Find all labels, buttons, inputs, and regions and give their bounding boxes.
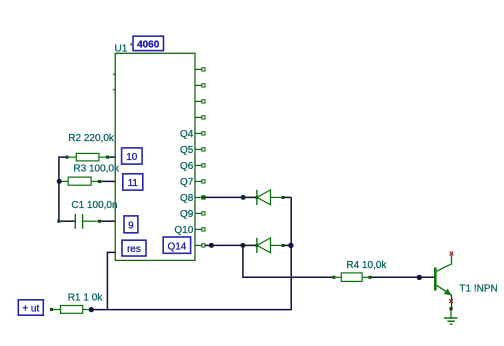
IC U1 4060 body outline bbox=[115, 53, 195, 260]
resistor R1 bbox=[50, 306, 89, 314]
label R1 1 0k bbox=[68, 293, 103, 304]
svg-text:Q5: Q5 bbox=[180, 145, 194, 156]
svg-text:U1: U1 bbox=[115, 44, 128, 55]
resistor R4 bbox=[332, 273, 371, 282]
svg-text:R3 100,0k: R3 100,0k bbox=[73, 164, 120, 175]
pin box res bbox=[122, 240, 146, 256]
label R4 10,0k bbox=[346, 260, 387, 271]
wire Q14 to diode D2 bbox=[205, 244, 256, 246]
unconnected pin marker x at T1 collector bbox=[450, 252, 454, 256]
node junction on Q8 wire bbox=[241, 195, 246, 200]
pin number box 9 bbox=[124, 216, 138, 233]
pin stub right 2 (y=85.4) bbox=[195, 84, 205, 87]
label T1 !NPN bbox=[459, 284, 497, 295]
svg-text:R1 1 0k: R1 1 0k bbox=[68, 293, 103, 304]
node junction at Q14 pin bbox=[209, 243, 214, 248]
resistor R3 bbox=[62, 177, 102, 185]
+ut connector box bbox=[18, 300, 43, 315]
node junction at R1 output bbox=[89, 307, 94, 312]
pin number box 10 bbox=[122, 148, 143, 164]
label R3 100,0k bbox=[73, 164, 120, 175]
left pin nub 2 on U1 bbox=[113, 89, 115, 91]
svg-text:11: 11 bbox=[128, 178, 139, 189]
svg-text:Q10: Q10 bbox=[174, 225, 193, 236]
pin Q14 boxed label and stub bbox=[163, 237, 205, 253]
wire R2 to pin 10 bbox=[109, 156, 115, 158]
label R2 220,0k bbox=[68, 133, 115, 144]
wire R2 left corner and rail top bbox=[59, 157, 67, 221]
svg-text:R4 10,0k: R4 10,0k bbox=[346, 260, 387, 271]
wire C1 to pin 9 bbox=[101, 220, 115, 222]
ground symbol bbox=[444, 310, 458, 324]
pin Q7 label and stub bbox=[180, 177, 205, 188]
svg-text:T1 !NPN: T1 !NPN bbox=[459, 284, 497, 295]
svg-text:res: res bbox=[127, 244, 141, 255]
svg-text:4060: 4060 bbox=[137, 40, 160, 51]
ground pin square bbox=[449, 307, 452, 310]
U1 reference designator label bbox=[115, 44, 128, 55]
tick mark between U1 and 4060 box bbox=[130, 43, 132, 45]
wire res pin down to R1 row bbox=[107, 252, 115, 309]
wire R4 to T1 base bbox=[372, 276, 434, 278]
node junction left of D2 bbox=[240, 243, 245, 248]
diode D2 bbox=[255, 238, 291, 253]
svg-text:Q4: Q4 bbox=[180, 129, 194, 140]
pin Q10 label and stub bbox=[174, 225, 205, 236]
wire R3 to pin 11 bbox=[101, 180, 115, 182]
svg-text:Q9: Q9 bbox=[180, 209, 194, 220]
pin Q8 label and stub (connected) bbox=[180, 193, 205, 204]
pin Q6 label and stub bbox=[180, 161, 205, 172]
pin number box 11 bbox=[123, 174, 143, 190]
svg-text:Q6: Q6 bbox=[180, 161, 194, 172]
svg-text:Q8: Q8 bbox=[180, 193, 194, 204]
transistor T1 bbox=[434, 255, 452, 308]
svg-text:+ ut: + ut bbox=[22, 304, 39, 315]
left pin nub 1 on U1 bbox=[113, 73, 115, 75]
svg-text:C1 100,0n: C1 100,0n bbox=[71, 200, 117, 211]
pin stub right 1 (y=69.4) bbox=[195, 68, 205, 71]
diode D1 bbox=[255, 190, 291, 205]
svg-text:R2 220,0k: R2 220,0k bbox=[68, 133, 115, 144]
node junction right of D2 bbox=[288, 243, 293, 248]
capacitor C1 bbox=[57, 214, 101, 229]
pin Q5 label and stub bbox=[180, 145, 205, 156]
label C1 100,0n bbox=[71, 200, 117, 211]
wire Q8 to diode D1 bbox=[205, 196, 256, 198]
pin stub right 3 (y=101.4) bbox=[195, 100, 205, 103]
svg-text:Q7: Q7 bbox=[180, 177, 194, 188]
svg-text:9: 9 bbox=[128, 220, 134, 231]
svg-text:Q14: Q14 bbox=[167, 241, 186, 252]
pin stub right 4 (y=117.4) bbox=[195, 116, 205, 119]
unconnected pin marker x at T1 emitter bbox=[449, 299, 453, 303]
pin Q4 label and stub bbox=[180, 129, 205, 140]
node junction on rail at R3 bbox=[57, 179, 62, 184]
wire bottom run from R1 to diode column bbox=[91, 197, 291, 309]
node junction on base wire bbox=[417, 275, 422, 280]
pin Q9 label and stub bbox=[180, 209, 205, 220]
4060 value label box bbox=[133, 36, 164, 50]
wire from D2 left node down and right to R4 bbox=[243, 245, 332, 277]
svg-text:10: 10 bbox=[126, 152, 138, 163]
resistor R2 bbox=[66, 153, 110, 161]
